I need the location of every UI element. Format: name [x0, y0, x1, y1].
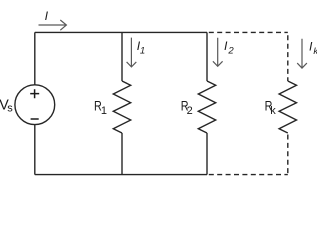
resistor Rk [279, 81, 296, 133]
wire Rk branch upper dashed [287, 35, 289, 81]
wire R1 branch lower [121, 133, 123, 175]
- polarity mark [31, 118, 39, 120]
current arrow I1 [127, 38, 137, 67]
wire R2 branch upper [206, 32, 208, 81]
wire R1 branch upper [121, 32, 123, 81]
svg-text:s: s [7, 103, 13, 115]
wire left upper [34, 32, 36, 84]
wire Rk branch lower dashed [287, 135, 289, 175]
+ polarity mark [30, 89, 39, 119]
svg-text:k: k [270, 105, 276, 117]
current arrow I2 [213, 38, 223, 67]
wire top solid [35, 31, 207, 33]
current arrow Ik [297, 39, 307, 68]
svg-text:I: I [224, 39, 228, 53]
resistor R2 [198, 81, 215, 133]
wire top dashed to Rk [209, 31, 288, 33]
wire left lower [34, 125, 36, 175]
svg-text:k: k [313, 46, 317, 57]
svg-text:I: I [309, 40, 313, 54]
voltage source Vs [15, 85, 55, 125]
svg-text:I: I [45, 9, 49, 23]
wire R2 branch lower [206, 133, 208, 175]
svg-text:2: 2 [187, 105, 193, 117]
wire bottom solid [35, 174, 207, 176]
svg-text:2: 2 [227, 46, 234, 57]
resistor R1 [113, 81, 130, 133]
current arrow I (top) [39, 20, 67, 30]
svg-text:1: 1 [101, 105, 107, 117]
svg-text:1: 1 [140, 46, 145, 57]
wire bottom dashed to Rk [209, 174, 288, 176]
